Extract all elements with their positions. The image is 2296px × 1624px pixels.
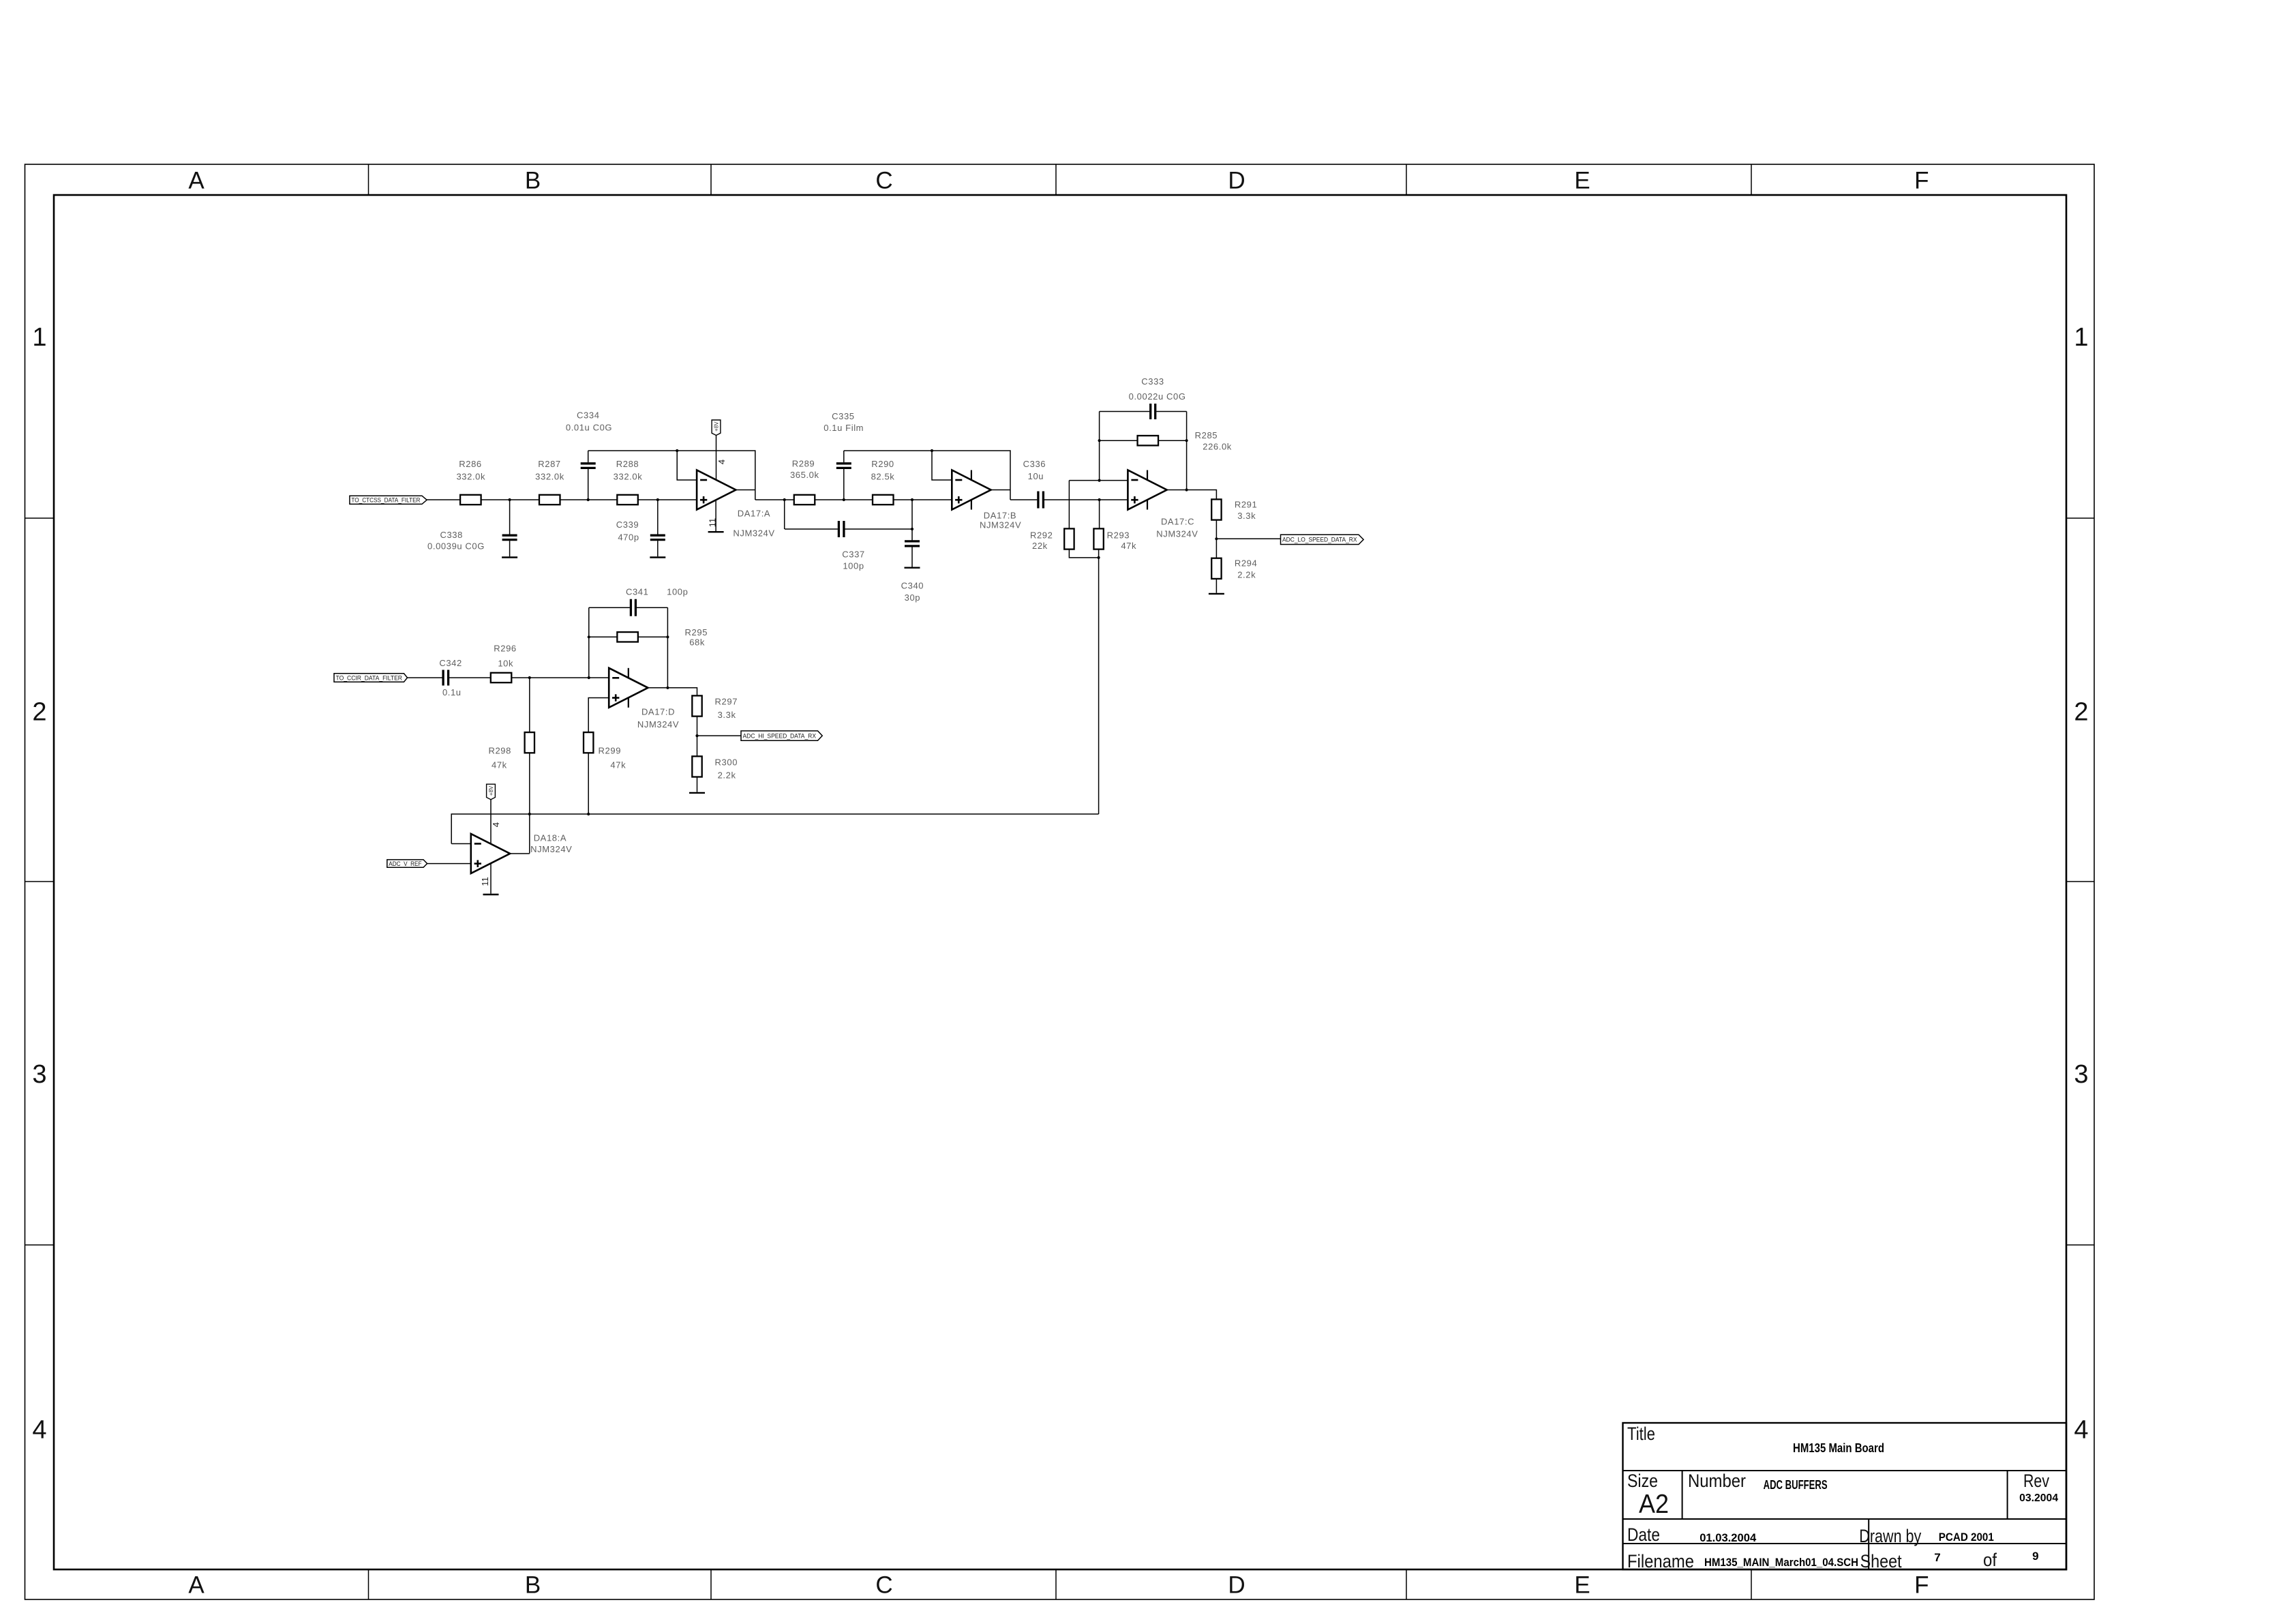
wire: DA17:C - input to R292 (1069, 479, 1128, 529)
wire: R289 to R290 with C335 tap (815, 469, 873, 501)
title block: Drawn by label (1859, 1526, 1921, 1546)
label DA17:D (641, 707, 675, 717)
svg-text:226.0k: 226.0k (1203, 441, 1232, 451)
svg-text:C336: C336 (1023, 459, 1046, 469)
value 47k (R299) (610, 760, 626, 770)
capacitor C334 (581, 451, 596, 468)
value 100p (C337) (843, 561, 864, 571)
resistor R293 (1093, 528, 1103, 549)
svg-text:11: 11 (708, 518, 718, 528)
title block: of label (1983, 1550, 1997, 1570)
svg-text:A: A (188, 1572, 205, 1599)
svg-text:E: E (1574, 1572, 1590, 1599)
resistor R292 (1064, 528, 1074, 549)
svg-text:D: D (1228, 168, 1245, 194)
label R294 (1235, 558, 1257, 569)
svg-text:4: 4 (491, 822, 501, 827)
label C335 (832, 411, 854, 421)
svg-text:of: of (1983, 1550, 1997, 1570)
svg-text:C342: C342 (439, 658, 462, 668)
svg-text:332.0k: 332.0k (535, 471, 564, 481)
svg-text:100p: 100p (667, 586, 688, 597)
value 2.2k (R300) (718, 770, 736, 781)
value 3.3k (R297) (718, 710, 736, 720)
op-amp DA18:A (471, 834, 510, 873)
resistor R291 (1211, 499, 1221, 520)
capacitor C342 (443, 670, 449, 686)
ground (R294) (1209, 593, 1224, 595)
title block: sheet total 9 (2032, 1550, 2038, 1563)
port TO_CTCSS_DATA_FILTER (350, 496, 427, 504)
op-amp DA17:D (609, 668, 648, 708)
value 365.0k (R289) (790, 470, 819, 480)
svg-text:DA17:B: DA17:B (984, 510, 1016, 520)
border column letters top (188, 168, 1929, 194)
label C337 (842, 550, 864, 560)
svg-text:NJM324V: NJM324V (980, 520, 1021, 530)
label R296 (494, 644, 516, 654)
svg-text:4: 4 (32, 1416, 46, 1445)
capacitor C337 (839, 521, 844, 537)
svg-text:30p: 30p (905, 592, 921, 603)
wire: DA17:D output to R297 (648, 688, 697, 696)
value NJM324V (DA17:C) (1156, 529, 1198, 539)
wire: DA18:A output to bus (510, 853, 530, 854)
svg-text:ADC_LO_SPEED_DATA_RX: ADC_LO_SPEED_DATA_RX (1282, 537, 1357, 543)
title block: size value A2 (1639, 1490, 1669, 1519)
svg-text:R291: R291 (1235, 499, 1257, 509)
capacitor C339 (650, 535, 665, 556)
wire: DA17:C feedback loop (1098, 412, 1188, 492)
svg-text:R292: R292 (1030, 530, 1053, 541)
border column letters bottom (188, 1572, 1929, 1599)
value 2.2k (R294) (1237, 569, 1256, 580)
value 47k (R298) (492, 760, 507, 770)
wire: R297 to R300 junction and ADC_HI port (695, 717, 741, 757)
svg-text:2.2k: 2.2k (1237, 569, 1256, 580)
label C333 (1141, 376, 1164, 387)
svg-text:100p: 100p (843, 561, 864, 571)
port TO_CCIR_DATA_FILTER (334, 674, 408, 682)
svg-text:DA17:D: DA17:D (641, 707, 675, 717)
pin 11 wire (DA18:A) (490, 863, 492, 893)
wire: C337 branch (785, 528, 913, 530)
label DA17:C (1161, 517, 1194, 527)
resistor R294 (1211, 558, 1221, 579)
capacitor C338 (502, 535, 517, 556)
wire: R292/R293 bottoms to reference bus (1069, 550, 1100, 814)
value 0.01u C0G (C334) (566, 423, 612, 433)
svg-text:R290: R290 (871, 459, 894, 469)
svg-text:D: D (1228, 1572, 1245, 1599)
resistor R300 (692, 756, 701, 777)
value 22k (R292) (1032, 541, 1048, 551)
op-amp DA17:A (697, 470, 736, 510)
svg-text:C340: C340 (901, 581, 924, 591)
svg-text:Rev: Rev (2023, 1471, 2049, 1491)
svg-text:F: F (1914, 168, 1929, 194)
title block: date value 01.03.2004 (1700, 1531, 1757, 1544)
svg-text:0.1u: 0.1u (442, 687, 462, 697)
ground (C340) (905, 567, 920, 569)
label DA17:B (984, 510, 1016, 520)
svg-text:C333: C333 (1141, 376, 1164, 387)
svg-text:68k: 68k (689, 637, 705, 648)
svg-text:3.3k: 3.3k (718, 710, 736, 720)
svg-text:F: F (1914, 1572, 1929, 1599)
value 332.0k (R288) (614, 471, 643, 481)
border zone dividers (25, 164, 2095, 1599)
wire: R299 bottom to bus (587, 753, 590, 815)
label C336 (1023, 459, 1046, 469)
wire: TO_CTCSS_DATA_FILTER to R286 (427, 499, 460, 500)
port ADC_V_REF (387, 860, 427, 867)
svg-text:0.0022u C0G: 0.0022u C0G (1129, 391, 1186, 402)
svg-text:A: A (188, 168, 205, 194)
value NJM324V (DA18:A) (530, 844, 572, 854)
capacitor C335 (836, 451, 851, 468)
wire: R288 to DA17:A + input with C339 tap (638, 498, 697, 535)
svg-text:4: 4 (716, 460, 727, 464)
svg-text:HM135_MAIN_March01_04.SCH: HM135_MAIN_March01_04.SCH (1704, 1556, 1858, 1569)
label R290 (871, 459, 894, 469)
ground (DA18:A pin 11) (483, 894, 499, 895)
svg-text:11: 11 (480, 877, 490, 886)
label DA17:A (738, 508, 770, 518)
label C340 (901, 581, 924, 591)
svg-text:C: C (875, 168, 892, 194)
svg-text:01.03.2004: 01.03.2004 (1700, 1531, 1757, 1544)
op-amp DA17:C (1128, 470, 1166, 510)
pin number 11 (DA17:A) (708, 518, 718, 528)
svg-text:NJM324V: NJM324V (530, 844, 572, 854)
ground (R300) (689, 792, 705, 794)
svg-text:R296: R296 (494, 644, 516, 654)
value 68k (R295) (689, 637, 705, 648)
title block: Filename label (1627, 1551, 1694, 1572)
svg-text:R300: R300 (715, 757, 738, 767)
value 100p (C341) (667, 586, 688, 597)
svg-text:0.1u Film: 0.1u Film (824, 423, 864, 433)
label R299 (599, 746, 621, 756)
title block: Date label (1627, 1524, 1660, 1545)
label C338 (440, 530, 462, 540)
capacitor C336 (1038, 492, 1044, 509)
wire: DA17:D feedback loop top (589, 607, 669, 689)
svg-text:R298: R298 (488, 746, 511, 756)
value 332.0k (R286) (456, 471, 485, 481)
border row numbers right (2074, 323, 2088, 1445)
border row numbers left (32, 323, 46, 1445)
wire: DA17:C output to R291 (1167, 490, 1217, 500)
label C334 (577, 410, 599, 421)
svg-text:R293: R293 (1107, 530, 1130, 541)
resistor R295 (617, 632, 638, 642)
svg-text:TO_CCIR_DATA_FILTER: TO_CCIR_DATA_FILTER (336, 674, 403, 681)
svg-text:C: C (875, 1572, 892, 1599)
svg-text:10u: 10u (1028, 471, 1044, 481)
pin number 4 (DA18:A) (491, 822, 501, 827)
svg-text:2: 2 (2074, 697, 2088, 726)
capacitor C333 (1151, 404, 1155, 419)
svg-text:10k: 10k (498, 658, 513, 668)
svg-text:B: B (525, 168, 541, 194)
wire: DA17:D + input from R299 (588, 698, 609, 733)
title block: sheet number 7 (1934, 1551, 1940, 1564)
svg-text:82.5k: 82.5k (871, 471, 895, 481)
svg-text:0.0039u C0G: 0.0039u C0G (427, 541, 485, 552)
power +8V (DA17:A pin 4) (712, 420, 721, 480)
svg-text:03.2004: 03.2004 (2019, 1492, 2058, 1504)
wire: R294 to ground (1215, 579, 1217, 593)
svg-text:3.3k: 3.3k (1237, 511, 1256, 521)
svg-text:2: 2 (32, 697, 46, 726)
svg-text:C341: C341 (626, 586, 648, 597)
svg-text:3: 3 (2074, 1060, 2088, 1089)
label R289 (792, 459, 815, 469)
svg-text:7: 7 (1934, 1551, 1940, 1564)
wire: R296 to DA17:D - input with R298 and loop taps (511, 607, 609, 732)
title block: Number label (1688, 1471, 1746, 1491)
resistor R286 (460, 495, 481, 505)
svg-text:TO_CTCSS_DATA_FILTER: TO_CTCSS_DATA_FILTER (351, 497, 420, 504)
value 0.1u Film (C335) (824, 423, 864, 433)
label R288 (616, 459, 639, 469)
label R295 (685, 627, 708, 637)
svg-text:R297: R297 (715, 696, 738, 706)
svg-text:Title: Title (1627, 1424, 1655, 1444)
wire: reference bus from DA18:A to R292/R293 (451, 814, 1098, 844)
svg-text:Date: Date (1627, 1524, 1660, 1545)
svg-text:C338: C338 (440, 530, 462, 540)
svg-text:C337: C337 (842, 550, 864, 560)
svg-text:R299: R299 (599, 746, 621, 756)
wire: R295 feedback row (588, 635, 669, 638)
svg-text:3: 3 (32, 1060, 46, 1089)
title block: rev value 03.2004 (2019, 1492, 2058, 1504)
value 10k (R296) (498, 658, 513, 668)
port ADC_LO_SPEED_DATA_RX (1281, 535, 1364, 544)
wire: R298 bottom to bus and DA18:A output (528, 753, 531, 854)
ground (C338) (502, 556, 517, 558)
value NJM324V (DA17:B) (980, 520, 1021, 530)
label R297 (715, 696, 738, 706)
svg-text:C339: C339 (616, 520, 639, 530)
resistor R285 (1138, 436, 1159, 445)
label R291 (1235, 499, 1257, 509)
svg-text:R286: R286 (459, 459, 481, 469)
resistor R290 (873, 495, 894, 505)
title block: Title label (1627, 1424, 1655, 1444)
svg-text:ADC_V_REF: ADC_V_REF (389, 860, 422, 867)
svg-text:DA18:A: DA18:A (534, 833, 567, 843)
value 0.1u (C342) (442, 687, 462, 697)
ground (DA17:A pin 11) (708, 531, 724, 532)
svg-text:E: E (1574, 168, 1590, 194)
resistor R287 (539, 495, 560, 505)
svg-text:Sheet: Sheet (1860, 1551, 1902, 1572)
value 30p (C340) (905, 592, 921, 603)
svg-text:+8V: +8V (714, 421, 720, 432)
title block: drawn by value PCAD 2001 (1939, 1531, 1994, 1544)
power +8V (DA18:A pin 4) (487, 784, 496, 844)
svg-text:ADC_HI_SPEED_DATA_RX: ADC_HI_SPEED_DATA_RX (743, 732, 817, 739)
value 0.0022u C0G (C333) (1129, 391, 1186, 402)
sheet inner border frame (54, 195, 2066, 1569)
capacitor C341 (631, 599, 635, 616)
title block (1623, 1423, 2067, 1569)
svg-text:+8V: +8V (488, 785, 494, 796)
wire: C336 to DA17:C + input with R293 tap (1044, 498, 1128, 529)
value 10u (C336) (1028, 471, 1044, 481)
svg-text:PCAD 2001: PCAD 2001 (1939, 1531, 1994, 1544)
resistor R298 (525, 732, 534, 753)
resistor R297 (692, 695, 701, 716)
pin 11 wire (DA17:A) (715, 500, 716, 531)
pin number 11 (DA18:A) (480, 877, 490, 886)
value 226.0k (R285) (1203, 441, 1232, 451)
label C341 (626, 586, 648, 597)
svg-text:22k: 22k (1032, 541, 1048, 551)
title block: filename value (1704, 1556, 1858, 1569)
wire: R290 to DA17:B + input with C340 tap (893, 498, 952, 541)
label R285 (1195, 430, 1218, 440)
svg-text:DA17:A: DA17:A (738, 508, 770, 518)
svg-text:R288: R288 (616, 459, 639, 469)
value NJM324V (DA17:A) (733, 528, 774, 539)
wire: TO_CCIR_DATA_FILTER to C342 (408, 677, 442, 678)
svg-text:0.01u C0G: 0.01u C0G (566, 423, 612, 433)
title block: Rev label (2023, 1471, 2049, 1491)
title block: Sheet label (1860, 1551, 1902, 1572)
resistor R288 (617, 495, 638, 505)
svg-text:Filename: Filename (1627, 1551, 1694, 1572)
label R298 (488, 746, 511, 756)
label R293 (1107, 530, 1130, 541)
value 0.0039u C0G (C338) (427, 541, 485, 552)
wire: DA17:B feedback loop (844, 449, 1010, 500)
wire: R291 to R294 junction and ADC_LO port (1215, 520, 1280, 558)
wire: R287 to R288 with C334 tap (560, 469, 618, 501)
svg-text:47k: 47k (1121, 541, 1136, 551)
svg-text:R289: R289 (792, 459, 815, 469)
value 332.0k (R287) (535, 471, 564, 481)
value NJM324V (DA17:D) (637, 719, 679, 730)
resistor R289 (794, 495, 815, 505)
svg-text:4: 4 (2074, 1416, 2088, 1445)
pin number 4 (DA17:A) (716, 460, 727, 464)
svg-text:DA17:C: DA17:C (1161, 517, 1194, 527)
wire: DA17:A feedback loop (588, 449, 755, 500)
svg-text:332.0k: 332.0k (614, 471, 643, 481)
svg-text:332.0k: 332.0k (456, 471, 485, 481)
svg-text:1: 1 (2074, 323, 2088, 352)
wire: R286 to R287 with C338 tap (481, 498, 539, 535)
svg-text:A2: A2 (1639, 1490, 1669, 1519)
svg-text:Number: Number (1688, 1471, 1746, 1491)
label R287 (538, 459, 560, 469)
label DA18:A (534, 833, 567, 843)
label C339 (616, 520, 639, 530)
svg-text:Drawn by: Drawn by (1859, 1526, 1921, 1546)
wire: ADC_V_REF to DA18:A + input (427, 863, 471, 864)
svg-text:47k: 47k (610, 760, 626, 770)
op-amp DA17:B (952, 470, 991, 510)
svg-text:C334: C334 (577, 410, 599, 421)
svg-text:Size: Size (1627, 1471, 1658, 1491)
svg-text:365.0k: 365.0k (790, 470, 819, 480)
resistor R296 (491, 673, 512, 682)
label R286 (459, 459, 481, 469)
value 3.3k (R291) (1237, 511, 1256, 521)
svg-text:47k: 47k (492, 760, 507, 770)
svg-text:ADC BUFFERS: ADC BUFFERS (1764, 1478, 1828, 1492)
title block: number value ADC BUFFERS (1764, 1478, 1828, 1492)
title block: Size label (1627, 1471, 1658, 1491)
svg-text:470p: 470p (618, 532, 639, 543)
svg-text:R287: R287 (538, 459, 560, 469)
svg-text:9: 9 (2032, 1550, 2038, 1563)
capacitor C340 (905, 541, 920, 567)
svg-text:R294: R294 (1235, 558, 1257, 569)
resistor R299 (584, 732, 593, 753)
wire: C342 to R296 (449, 677, 491, 678)
svg-text:C335: C335 (832, 411, 854, 421)
sheet outer border frame (25, 164, 2095, 1599)
svg-text:1: 1 (32, 323, 46, 352)
ground (C339) (650, 556, 665, 558)
value 47k (R293) (1121, 541, 1136, 551)
label C342 (439, 658, 462, 668)
port ADC_HI_SPEED_DATA_RX (741, 731, 822, 740)
svg-text:NJM324V: NJM324V (1156, 529, 1198, 539)
svg-text:B: B (525, 1572, 541, 1599)
svg-text:HM135 Main Board: HM135 Main Board (1793, 1441, 1884, 1455)
svg-text:R295: R295 (685, 627, 708, 637)
value 470p (C339) (618, 532, 639, 543)
svg-text:R285: R285 (1195, 430, 1218, 440)
wire: DA17:B output to C336 (991, 490, 1038, 500)
wire: DA17:A output to R289 with C337 branch tap (736, 490, 794, 530)
label R292 (1030, 530, 1053, 541)
title block: title value HM135 Main Board (1793, 1441, 1884, 1455)
svg-text:NJM324V: NJM324V (733, 528, 774, 539)
svg-text:2.2k: 2.2k (718, 770, 736, 781)
wire: R300 to ground (697, 777, 698, 792)
svg-text:NJM324V: NJM324V (637, 719, 679, 730)
label R300 (715, 757, 738, 767)
value 82.5k (R290) (871, 471, 895, 481)
